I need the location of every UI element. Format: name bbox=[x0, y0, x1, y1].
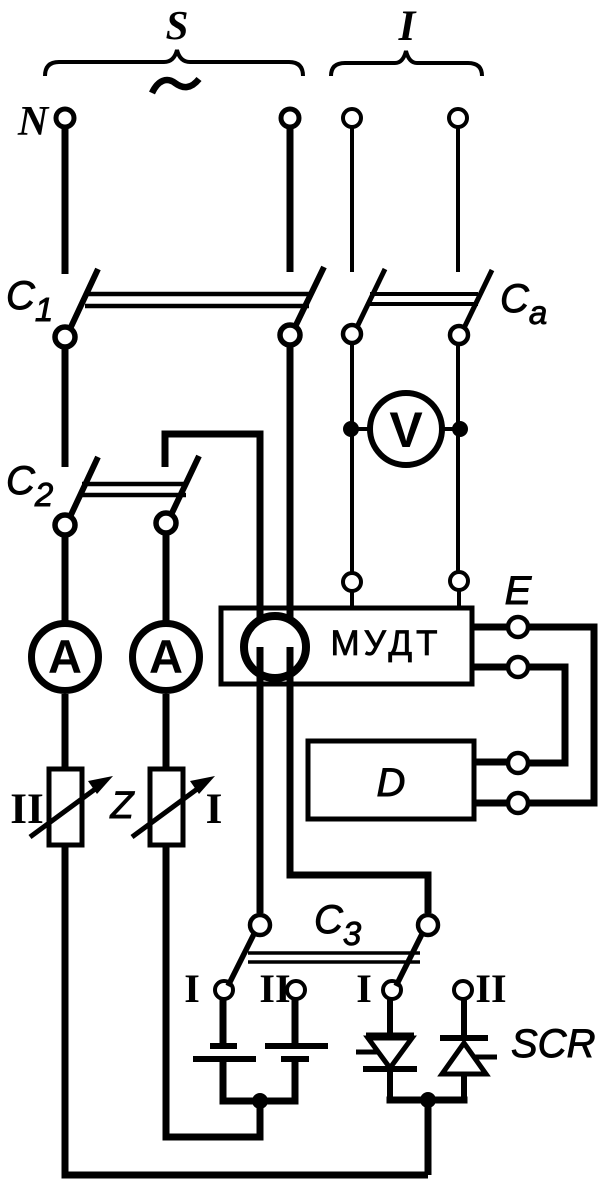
terminal S2 bbox=[281, 109, 299, 127]
wire SCR II down bbox=[461, 1074, 467, 1100]
svg-text:I: I bbox=[398, 3, 417, 50]
terminal E1 bbox=[508, 617, 528, 637]
wire L2 elbow to C3 right bbox=[290, 860, 428, 913]
svg-text:E: E bbox=[505, 569, 533, 613]
wire SCR bus bbox=[387, 1097, 468, 1104]
contactor C2 linkage bbox=[82, 484, 186, 495]
wire L4 mid bbox=[456, 344, 460, 571]
wire L2 mid bbox=[287, 345, 294, 620]
svg-text:II: II bbox=[475, 966, 506, 1011]
contactor C2 pole 2 bbox=[156, 456, 199, 533]
terminal circle above MUDT right bbox=[450, 572, 468, 590]
wire rheostat I down bbox=[163, 845, 170, 1140]
AC tilde symbol bbox=[152, 79, 199, 93]
wire MUDT to E2 bbox=[472, 664, 508, 671]
wire through ring right bbox=[287, 647, 294, 875]
svg-text:I: I bbox=[184, 966, 200, 1011]
voltmeter V stub right bbox=[440, 427, 460, 431]
terminal N bbox=[56, 109, 74, 127]
box D bbox=[308, 741, 474, 819]
node dot right of voltmeter bbox=[452, 421, 468, 437]
wire ammeter A2 to rheostat I bbox=[163, 694, 170, 769]
wire L4 into box bbox=[457, 591, 461, 610]
svg-text:N: N bbox=[17, 99, 50, 145]
switch C3 linkage bbox=[248, 953, 420, 962]
thyristor SCR II bbox=[440, 1038, 497, 1074]
capacitor CII bbox=[265, 1046, 328, 1059]
brace I bbox=[331, 51, 482, 76]
switch C3 left lever bbox=[228, 934, 254, 986]
wire rheostat II down bbox=[62, 845, 69, 1178]
contactor Ca pole 2 bbox=[450, 270, 492, 344]
svg-text:SCR: SCR bbox=[511, 1022, 595, 1066]
wire capacitor return bbox=[163, 1101, 261, 1137]
svg-text:I: I bbox=[206, 786, 223, 833]
svg-text:МУДТ: МУДТ bbox=[331, 624, 442, 663]
terminal E4 bbox=[508, 793, 528, 813]
switch C3 right common bbox=[418, 915, 438, 935]
wire E1 outer loop bbox=[528, 627, 594, 803]
terminal E3 bbox=[508, 753, 528, 773]
voltmeter V stub left bbox=[351, 427, 372, 431]
svg-text:S: S bbox=[166, 2, 189, 48]
wire to SCR I bbox=[387, 999, 393, 1038]
svg-text:A: A bbox=[149, 630, 183, 683]
terminal C3 right II bbox=[454, 981, 472, 999]
node dot left of voltmeter bbox=[343, 421, 359, 437]
wire capacitor II down bbox=[292, 1059, 299, 1101]
terminal E2 bbox=[508, 657, 528, 677]
terminal I2 bbox=[449, 109, 467, 127]
terminal C3 left I bbox=[215, 981, 233, 999]
svg-text:II: II bbox=[10, 786, 43, 833]
ammeter A2 bbox=[133, 624, 200, 691]
rheostat Z-II bbox=[30, 769, 113, 845]
wire L1 mid bbox=[62, 347, 69, 467]
box MUDT bbox=[221, 608, 472, 684]
wire capacitor bus bbox=[220, 1098, 299, 1105]
svg-text:V: V bbox=[389, 402, 423, 458]
contactor C1 linkage bbox=[85, 294, 309, 306]
wire MUDT to E1 bbox=[472, 624, 508, 631]
contactor C1 pole 1 bbox=[55, 269, 98, 347]
terminal C3 left II bbox=[287, 981, 305, 999]
wire branch to ammeter II bbox=[163, 533, 170, 622]
wire to capacitor II bbox=[292, 999, 299, 1046]
wire to capacitor I bbox=[220, 999, 227, 1046]
magnetic amplifier winding ring bbox=[244, 616, 306, 678]
wire to SCR II bbox=[461, 999, 467, 1040]
capacitor CI bbox=[193, 1046, 256, 1059]
wire C2 branch elbow bbox=[165, 434, 260, 620]
ammeter A1 bbox=[32, 624, 99, 691]
voltmeter V bbox=[370, 393, 442, 465]
node dot SCR bus bbox=[420, 1092, 436, 1108]
wire SCR I down bbox=[387, 1069, 393, 1100]
wire L3 mid bbox=[350, 343, 354, 572]
svg-text:Z: Z bbox=[109, 785, 135, 827]
terminal circle above MUDT left bbox=[343, 573, 361, 591]
terminal C3 right I bbox=[383, 981, 401, 999]
svg-text:D: D bbox=[377, 761, 406, 805]
rheostat Z-I bbox=[132, 769, 215, 845]
wire L4 top bbox=[456, 128, 460, 272]
wire D to E4 bbox=[474, 800, 508, 807]
switch C3 right lever bbox=[396, 934, 422, 986]
wire ammeter A1 to rheostat II bbox=[62, 694, 69, 769]
wire capacitor I down bbox=[220, 1059, 227, 1101]
wire E2 inner loop bbox=[528, 667, 565, 763]
wire bottom bus bbox=[62, 1172, 429, 1179]
brace S group bbox=[45, 50, 303, 76]
terminal I1 bbox=[343, 109, 361, 127]
wire SCR riser bbox=[425, 1100, 432, 1175]
svg-text:I: I bbox=[356, 966, 372, 1011]
contactor Ca linkage bbox=[370, 294, 478, 304]
wire L3 top bbox=[350, 128, 354, 272]
wire L1 to ammeter bbox=[62, 535, 69, 622]
contactor Ca pole 1 bbox=[343, 269, 385, 343]
svg-text:A: A bbox=[48, 630, 82, 683]
contactor C1 pole 2 bbox=[280, 267, 324, 345]
wire L3 into box bbox=[350, 592, 354, 610]
wire L1 top bbox=[62, 129, 69, 274]
wire through ring left bbox=[257, 647, 264, 913]
thyristor SCR I bbox=[356, 1036, 417, 1070]
wire L2 top bbox=[287, 129, 294, 272]
switch C3 left common bbox=[250, 915, 270, 935]
wire D to E3 bbox=[474, 759, 508, 766]
node dot capacitor bus bbox=[252, 1093, 268, 1109]
contactor C2 pole 1 bbox=[55, 457, 98, 535]
